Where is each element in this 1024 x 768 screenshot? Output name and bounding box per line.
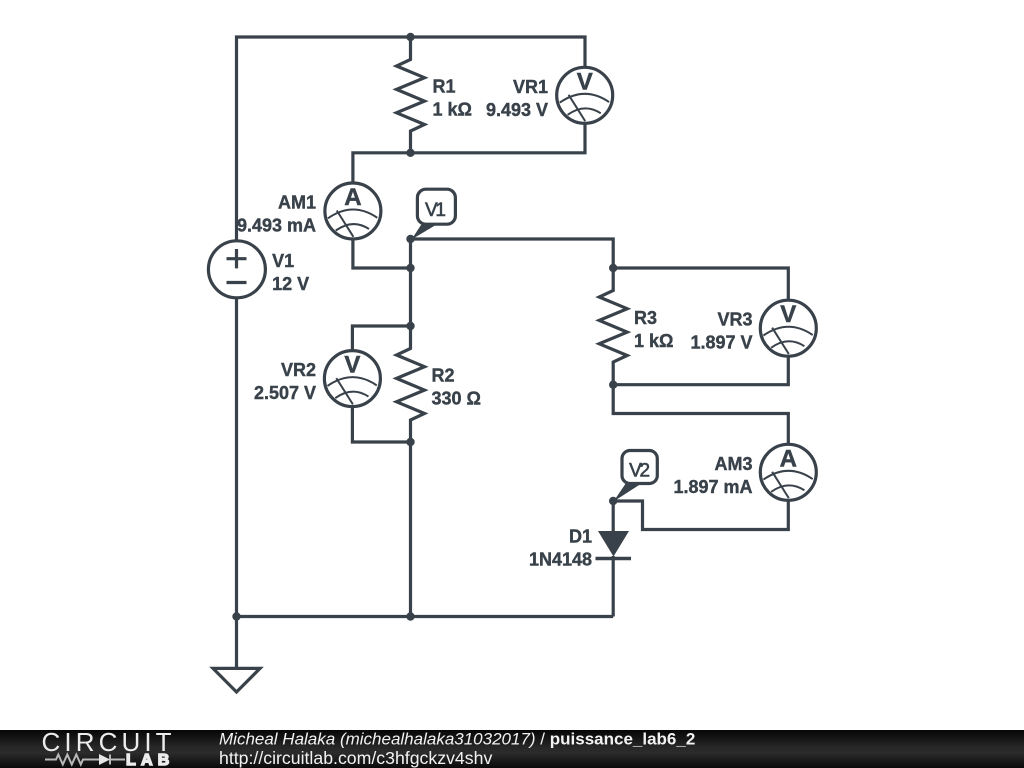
svg-text:V1: V1 <box>425 200 446 221</box>
svg-text:1 kΩ: 1 kΩ <box>433 99 472 119</box>
svg-text:12 V: 12 V <box>272 274 309 294</box>
svg-text:V: V <box>577 68 593 95</box>
svg-text:2.507 V: 2.507 V <box>254 383 316 403</box>
svg-text:9.493 mA: 9.493 mA <box>237 216 316 236</box>
svg-text:1.897 mA: 1.897 mA <box>673 477 752 497</box>
svg-text:R2: R2 <box>432 365 455 385</box>
svg-text:9.493 V: 9.493 V <box>486 100 548 120</box>
svg-text:VR2: VR2 <box>281 360 316 380</box>
svg-text:LAB: LAB <box>126 752 174 768</box>
svg-text:Micheal Halaka (michealhalaka3: Micheal Halaka (michealhalaka31032017) /… <box>219 730 695 749</box>
svg-text:VR3: VR3 <box>717 310 752 330</box>
svg-text:V2: V2 <box>629 460 650 481</box>
svg-text:330 Ω: 330 Ω <box>432 388 481 408</box>
svg-text:AM3: AM3 <box>714 454 752 474</box>
svg-text:D1: D1 <box>569 527 592 547</box>
svg-text:R3: R3 <box>634 308 657 328</box>
svg-text:1N4148: 1N4148 <box>529 550 592 570</box>
svg-text:V: V <box>344 352 360 379</box>
svg-text:A: A <box>780 445 797 472</box>
svg-text:AM1: AM1 <box>278 193 316 213</box>
svg-text:A: A <box>344 184 361 211</box>
svg-text:V: V <box>780 301 796 328</box>
svg-text:V1: V1 <box>272 251 294 271</box>
svg-text:R1: R1 <box>433 76 456 96</box>
svg-text:http://circuitlab.com/c3hfgckz: http://circuitlab.com/c3hfgckzv4shv <box>219 748 492 768</box>
svg-text:1 kΩ: 1 kΩ <box>634 331 673 351</box>
svg-text:1.897 V: 1.897 V <box>690 333 752 353</box>
svg-text:VR1: VR1 <box>513 77 548 97</box>
